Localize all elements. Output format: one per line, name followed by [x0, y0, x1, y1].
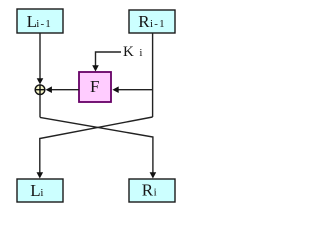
arrowhead into F top: [92, 65, 99, 71]
wire XOR output down: [39, 95, 41, 118]
wire diagonal right-to-left into L i: [40, 117, 153, 174]
box R i-1: [129, 10, 175, 33]
box L i-1: [17, 9, 63, 33]
arrowhead into XOR top: [37, 78, 44, 84]
wire from R i-1 down to corner: [152, 33, 154, 117]
box L i: [17, 179, 63, 202]
wire K i to F (elbow): [96, 52, 122, 67]
XOR node: [35, 84, 46, 95]
wire branch from R line to F: [118, 89, 153, 91]
svg-text:Ki: Ki: [123, 44, 142, 60]
arrowhead into R i top: [150, 172, 157, 178]
arrowhead into L i top: [37, 172, 44, 178]
svg-text:F: F: [90, 77, 99, 96]
wire from F to XOR: [51, 89, 79, 91]
arrowhead into XOR right: [46, 86, 52, 93]
F box: [79, 72, 111, 102]
arrowhead into F right: [112, 86, 118, 93]
box R i: [129, 179, 175, 202]
wire diagonal left-to-right into R i: [40, 117, 153, 173]
wire from L i-1 down to XOR: [39, 33, 41, 80]
